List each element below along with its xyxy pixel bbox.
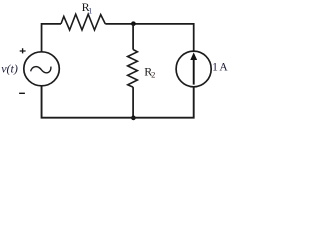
voltage source U1 circle [24, 52, 60, 86]
label plus sign [20, 48, 26, 53]
svg-text:2: 2 [151, 69, 155, 79]
wire top-left rail [42, 24, 61, 52]
resistor R2 [128, 50, 138, 88]
current source arrow [193, 60, 195, 85]
svg-text:1: 1 [88, 6, 92, 15]
current source I1 circle [176, 51, 211, 87]
svg-text:A: A [219, 61, 228, 73]
resistor R1 [61, 14, 105, 30]
label minus sign [19, 92, 25, 94]
node A top junction dot [131, 21, 136, 26]
wire middle top stub [132, 24, 134, 50]
wire middle bottom stub [132, 87, 134, 118]
node B bottom junction dot [131, 116, 136, 121]
svg-text:1: 1 [212, 61, 218, 73]
voltage source sine symbol [31, 67, 51, 73]
svg-text:v(t): v(t) [1, 61, 18, 75]
wire bottom rail [42, 86, 194, 118]
wire top-right rail [105, 24, 193, 51]
